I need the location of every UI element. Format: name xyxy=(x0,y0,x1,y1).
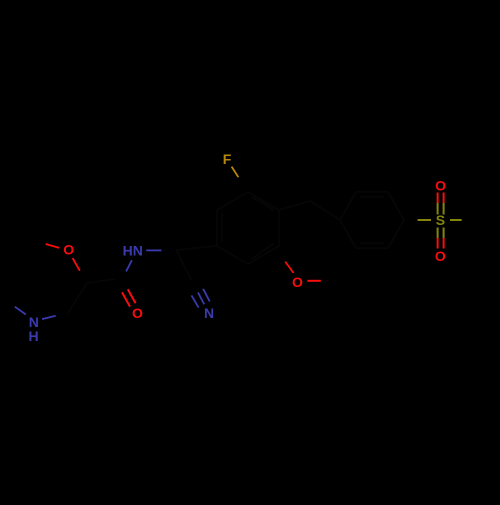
bond S=O top double (red half near O) xyxy=(438,193,444,204)
benzene ring 1 (fluoro/aryl ring, carbon bonds, near-black) xyxy=(217,192,279,264)
bond O-C (left methoxy to quaternary C, red half) xyxy=(73,258,80,271)
bond N-C=O (amide N lower-left stub, blue) xyxy=(126,260,132,271)
svg-text:O: O xyxy=(63,241,74,257)
bond O-CH3 (aryl ether right stub, red) xyxy=(307,280,320,282)
svg-text:HN: HN xyxy=(123,242,143,258)
svg-text:H: H xyxy=(29,328,39,344)
svg-text:O: O xyxy=(292,274,303,290)
bond S=O bottom double (olive half near S) xyxy=(438,228,444,239)
bond S=O top double (olive half near S) xyxy=(438,203,444,215)
bond C-O (aryl ether up-left stub, red) xyxy=(285,262,293,273)
bond F-C (fluorine half, goldenrod) xyxy=(232,167,239,178)
wire: ring1 to ring2 linker carbon bonds xyxy=(279,201,340,220)
bond N-CH3 (bottom amine up-left stub, blue) xyxy=(15,307,26,315)
bond S=O bottom double (red half near O) xyxy=(438,238,444,249)
svg-text:O: O xyxy=(435,248,446,264)
wire: quaternary carbon links (C-C(=O), C-CH2) xyxy=(68,279,115,313)
bond C=O double (carbonyl, red halves) xyxy=(122,292,130,306)
bond S-CH3 (right stub, olive) xyxy=(450,219,462,221)
wire: alpha carbon chain (CH to ring1) xyxy=(176,246,217,281)
bond N-CH2 (bottom amine up-right stub, blue) xyxy=(42,316,56,319)
svg-text:O: O xyxy=(132,305,143,321)
bond C-S (left stub, olive) xyxy=(418,219,431,221)
svg-text:S: S xyxy=(436,212,445,228)
benzene ring 2 (sulfonyl ring, carbon bonds, near-black) xyxy=(340,192,404,248)
bond C#N triple (nitrile, blue halves) xyxy=(192,295,199,307)
svg-text:O: O xyxy=(435,177,446,193)
bond CH3-O (left methoxy, red half) xyxy=(46,244,60,248)
bond N-CH (amide N right stub, blue) xyxy=(146,249,161,251)
svg-text:F: F xyxy=(223,151,232,167)
svg-text:N: N xyxy=(204,305,214,321)
